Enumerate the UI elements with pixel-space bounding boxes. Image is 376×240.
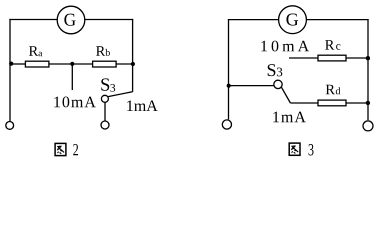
switch S3 pole contact (fig2) — [101, 95, 108, 102]
caption frame 图 (fig2) — [55, 143, 66, 155]
wire: fig3 Rc branch left segment — [289, 57, 318, 59]
terminal: fig2 bottom binding post — [101, 121, 109, 129]
terminal: fig3 right binding post — [363, 121, 373, 131]
node: fig2 middle tap junction — [70, 62, 74, 66]
wire: fig3 left vertical — [228, 19, 230, 119]
node: fig3 Rd junction — [366, 101, 370, 105]
node: fig3 left junction — [227, 84, 231, 88]
wire: fig3 top-left horizontal — [228, 19, 279, 21]
resistor Ra — [25, 61, 49, 67]
galvanometer U1 "G" (fig2) — [57, 6, 85, 34]
wire: fig2 top-right horizontal — [85, 19, 134, 21]
wire: fig2 between Ra and Rb — [49, 63, 93, 65]
label 1mA (fig2) — [127, 100, 157, 111]
caption 图 inner strokes (fig2) — [57, 146, 64, 154]
label S3 (fig3) — [268, 64, 283, 76]
wire: fig2 row right segment — [116, 63, 133, 65]
label Rd — [326, 85, 341, 95]
resistor Rd — [318, 100, 346, 106]
wire: fig3 right vertical — [367, 19, 369, 120]
wire: fig3 Rd to right rail — [346, 102, 368, 104]
switch S3 blade (fig3) — [282, 87, 291, 103]
label Rb — [96, 46, 110, 56]
wire: fig3 Rd branch left segment — [290, 102, 318, 104]
switch S3 pole contact (fig3) — [274, 80, 282, 88]
node: fig2 left junction — [9, 62, 13, 66]
wire: fig2 top-left horizontal — [9, 19, 57, 21]
terminal: fig3 left binding post — [222, 120, 231, 129]
wire: fig2 left vertical — [9, 19, 11, 121]
wire: fig3 Rc to right rail — [346, 57, 368, 59]
wire: fig2 shunt row left segment — [10, 63, 25, 65]
caption 图 inner strokes (fig3) — [291, 146, 298, 154]
node: fig2 right junction — [131, 62, 135, 66]
switch S3 blade (fig2) — [108, 92, 133, 97]
resistor Rc — [318, 55, 346, 61]
caption numeral 3 (fig3) — [309, 144, 314, 155]
node: fig3 Rc junction — [366, 56, 370, 60]
label S3 (fig2) — [101, 78, 115, 91]
wire: fig3 top-right horizontal — [306, 19, 368, 21]
wire: fig3 switch feed — [229, 85, 274, 87]
resistor Rb — [93, 61, 117, 67]
galvanometer U2 "G" (fig3) — [279, 6, 307, 34]
label 1mA (fig3) — [273, 112, 305, 123]
label Rc — [325, 40, 340, 50]
terminal: fig2 left binding post — [6, 122, 14, 130]
wire: fig2 10mA tap stub — [71, 64, 73, 90]
wire: fig2 pole to terminal — [104, 102, 106, 121]
label 10mA (fig3) — [261, 41, 309, 52]
caption numeral 2 (fig2) — [73, 144, 78, 155]
caption frame 图 (fig3) — [289, 143, 300, 155]
label 10mA (fig2) — [54, 97, 95, 108]
wire: fig2 right vertical — [132, 19, 134, 92]
label Ra — [29, 46, 42, 56]
